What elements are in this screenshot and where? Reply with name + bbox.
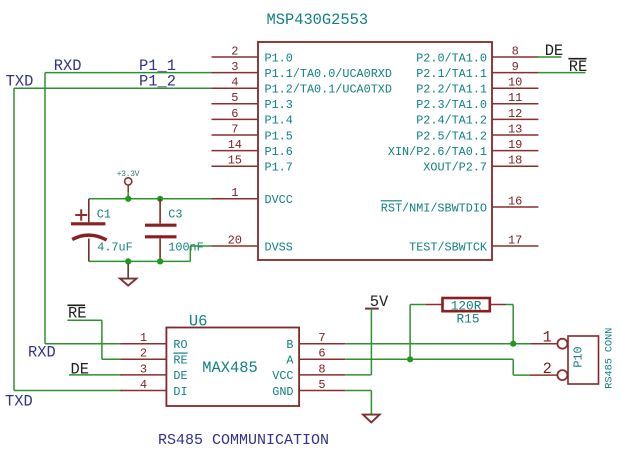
svg-text:DVCC: DVCC xyxy=(265,193,293,207)
svg-text:RE: RE xyxy=(569,58,587,76)
wire to U1 DVSS pin 20 xyxy=(190,245,211,247)
svg-text:1: 1 xyxy=(140,331,147,345)
U1 pin 13 stub (P2.5/TA1.2) xyxy=(492,134,538,136)
svg-text:15: 15 xyxy=(228,154,242,168)
wire RXD to U6 pin 1 RO xyxy=(45,343,122,345)
U6 pin 5 stub (GND) xyxy=(299,390,345,392)
svg-text:DI: DI xyxy=(173,385,187,399)
wire DE at U1 pin 8 xyxy=(537,56,562,58)
svg-text:MSP430G2553: MSP430G2553 xyxy=(267,11,369,29)
resistor R15 right lead wire xyxy=(506,304,513,306)
U1 pin 19 stub (XIN/P2.6/TA0.1) xyxy=(492,150,538,152)
svg-text:RXD: RXD xyxy=(28,344,56,362)
wire TXD horizontal to U1 pin 4 xyxy=(14,87,212,89)
U6 pin 1 stub (RO) xyxy=(121,343,167,345)
IC U6 MAX485 body xyxy=(166,328,299,407)
svg-text:R15: R15 xyxy=(457,311,480,326)
svg-text:4: 4 xyxy=(231,76,238,90)
wire TXD vertical trunk xyxy=(13,88,15,390)
U1 pin 11 stub (P2.3/TA1.0) xyxy=(492,103,538,105)
U1 pin 20 stub (DVSS) xyxy=(212,245,259,247)
svg-text:P1.1/TA0.0/UCA0RXD: P1.1/TA0.0/UCA0RXD xyxy=(265,67,392,81)
svg-text:10: 10 xyxy=(508,76,522,90)
U1 pin 1 stub (DVCC) xyxy=(212,198,259,200)
svg-text:C1: C1 xyxy=(97,208,111,222)
svg-text:MAX485: MAX485 xyxy=(202,359,257,377)
svg-text:17: 17 xyxy=(508,233,522,247)
U6 pin 4 stub (DI) xyxy=(121,390,167,392)
svg-text:9: 9 xyxy=(512,60,519,74)
svg-text:P1.3: P1.3 xyxy=(265,98,293,112)
capacitor C1 curved negative plate xyxy=(72,235,106,240)
connector P10 pin 1 circle xyxy=(557,339,567,349)
wire B net from U6 pin 7 to P10 pin 1 xyxy=(345,343,530,345)
junction A net / R15 left xyxy=(407,356,413,362)
capacitor C1 bottom lead xyxy=(88,239,90,262)
svg-text:P1.2/TA0.1/UCA0TXD: P1.2/TA0.1/UCA0TXD xyxy=(265,83,392,97)
svg-text:RE: RE xyxy=(173,354,187,368)
U1 pin 4 stub (P1.2/TA0.1/UCA0TXD) xyxy=(212,87,259,89)
svg-text:P10: P10 xyxy=(572,346,586,367)
svg-text:P2.3/TA1.0: P2.3/TA1.0 xyxy=(416,98,487,112)
svg-text:B: B xyxy=(286,338,293,352)
svg-text:DE: DE xyxy=(173,369,187,383)
wire RE at U1 pin 9 xyxy=(538,72,586,74)
capacitor C3 bottom lead xyxy=(159,238,161,261)
svg-text:VCC: VCC xyxy=(272,369,293,383)
IC U1 MSP430G2553 body xyxy=(258,42,492,260)
svg-text:P2.5/TA1.2: P2.5/TA1.2 xyxy=(416,129,487,143)
svg-text:P1.7: P1.7 xyxy=(265,161,293,175)
svg-text:6: 6 xyxy=(231,107,238,121)
U1 pin 8 stub (P2.0/TA1.0) xyxy=(492,56,538,58)
svg-text:TEST/SBWTCK: TEST/SBWTCK xyxy=(409,240,488,254)
junction +3.3V rail / supply stem xyxy=(125,196,131,202)
connector P10 pin 1 stub xyxy=(530,343,557,345)
U6 pin 6 stub (A) xyxy=(299,358,345,360)
svg-text:+3.3V: +3.3V xyxy=(117,170,140,179)
connector P10 pin 2 circle xyxy=(557,370,567,380)
supply +3.3V symbol circle xyxy=(125,178,132,185)
capacitor C3 plate 1 xyxy=(145,224,177,227)
U1 pin 18 stub (XOUT/P2.7) xyxy=(492,165,538,167)
svg-text:4: 4 xyxy=(140,378,147,392)
svg-text:3: 3 xyxy=(231,60,238,74)
resistor R15 right vertical to B net xyxy=(512,305,514,344)
U1 pin 3 stub (P1.1/TA0.0/UCA0RXD) xyxy=(212,72,259,74)
wire TXD to U6 pin 4 DI xyxy=(14,390,122,392)
U1 pin 12 stub (P2.4/TA1.2) xyxy=(492,118,538,120)
svg-text:19: 19 xyxy=(508,138,522,152)
wire RXD horizontal to U1 pin 3 xyxy=(45,72,212,74)
wire RE vertical down to U6 pin 2 xyxy=(101,320,103,359)
resistor R15 left lead wire xyxy=(410,304,426,306)
ground symbol stem (caps) xyxy=(127,264,129,278)
svg-text:RO: RO xyxy=(173,338,187,352)
connector P10 pin 2 stub xyxy=(530,374,557,376)
svg-text:P2.4/TA1.2: P2.4/TA1.2 xyxy=(416,114,487,128)
svg-text:2: 2 xyxy=(543,360,552,378)
capacitor C1 top lead xyxy=(88,199,90,223)
U6 pin 3 stub (DE) xyxy=(121,374,167,376)
svg-text:RS485 CONN: RS485 CONN xyxy=(605,328,616,389)
svg-text:3: 3 xyxy=(140,362,147,376)
ground symbol triangle (caps) xyxy=(120,279,136,286)
wire A net to P10 pin 2 xyxy=(513,374,530,376)
svg-text:RST/NMI/SBWTDIO: RST/NMI/SBWTDIO xyxy=(381,201,487,215)
svg-text:P2.0/TA1.0: P2.0/TA1.0 xyxy=(416,51,487,65)
svg-text:RS485 COMMUNICATION: RS485 COMMUNICATION xyxy=(158,432,329,449)
wire RXD vertical trunk xyxy=(44,73,46,344)
svg-text:6: 6 xyxy=(318,347,325,361)
svg-text:2: 2 xyxy=(231,44,238,58)
svg-text:C3: C3 xyxy=(168,208,182,222)
svg-text:P2.2/TA1.1: P2.2/TA1.1 xyxy=(416,83,487,97)
capacitor C3 top lead xyxy=(159,199,161,224)
svg-text:P1.6: P1.6 xyxy=(265,145,293,159)
svg-text:XOUT/P2.7: XOUT/P2.7 xyxy=(423,161,487,175)
capacitor C3 plate 2 xyxy=(145,235,177,238)
wire RE to U6 pin 2 xyxy=(102,358,122,360)
U6 pin 2 RE overline xyxy=(173,352,187,354)
svg-text:DVSS: DVSS xyxy=(265,240,293,254)
junction ground rail / gnd symbol xyxy=(125,258,131,264)
U1 pin 6 stub (P1.4) xyxy=(212,118,259,120)
wire A net from U6 pin 6 xyxy=(345,358,513,360)
wire DE to U6 pin 3 xyxy=(69,374,122,376)
svg-text:7: 7 xyxy=(318,331,325,345)
ground symbol triangle (U6) xyxy=(363,415,380,423)
resistor R15 left vertical to A net xyxy=(409,305,411,360)
svg-text:P1.5: P1.5 xyxy=(265,129,293,143)
U6 pin 2 stub (RE) xyxy=(121,358,167,360)
svg-text:4.7uF: 4.7uF xyxy=(97,240,132,254)
U1 pin 10 stub (P2.2/TA1.1) xyxy=(492,87,538,89)
svg-text:1: 1 xyxy=(543,329,552,347)
svg-text:U6: U6 xyxy=(189,312,207,330)
wire ground rail under C1 C3 xyxy=(89,260,191,262)
wire VCC from U6 pin 8 xyxy=(345,374,371,376)
junction B net / R15 right xyxy=(510,341,516,347)
resistor R15 left pin xyxy=(426,304,443,306)
svg-text:16: 16 xyxy=(508,194,522,208)
wire +3.3V rail to U1 DVCC pin 1 xyxy=(89,198,212,200)
wire GND from U6 pin 5 xyxy=(345,390,371,392)
svg-text:11: 11 xyxy=(508,91,522,105)
wire A net jog down xyxy=(512,359,514,375)
junction ground rail / C3 bottom xyxy=(157,258,163,264)
svg-text:20: 20 xyxy=(228,233,242,247)
supply +3.3V stem xyxy=(127,185,129,192)
svg-text:13: 13 xyxy=(508,122,522,136)
U1 pin 16 stub (RST/NMI/SBWTDIO) xyxy=(492,206,538,208)
wire 5V vertical to VCC row xyxy=(370,309,372,375)
svg-text:12: 12 xyxy=(508,107,522,121)
U1 pin 14 stub (P1.6) xyxy=(212,150,259,152)
svg-text:P2.1/TA1.1: P2.1/TA1.1 xyxy=(416,67,487,81)
resistor R15 right pin xyxy=(490,304,506,306)
wire up to DVSS vertical xyxy=(189,246,191,261)
svg-text:8: 8 xyxy=(512,44,519,58)
svg-text:TXD: TXD xyxy=(5,392,33,410)
resistor R15 body 120R xyxy=(443,298,490,311)
svg-text:8: 8 xyxy=(318,362,325,376)
wire RE horizontal under label xyxy=(67,319,102,321)
U1 pin 5 stub (P1.3) xyxy=(212,103,259,105)
svg-text:7: 7 xyxy=(231,122,238,136)
svg-text:P1.0: P1.0 xyxy=(265,51,293,65)
wire GND vertical to ground symbol xyxy=(370,391,372,415)
svg-text:1: 1 xyxy=(231,186,238,200)
connector P10 body xyxy=(568,336,599,384)
svg-text:2: 2 xyxy=(140,347,147,361)
U6 pin 7 stub (B) xyxy=(299,343,345,345)
capacitor C1 plus sign xyxy=(75,214,87,216)
U1 pin 9 stub (P2.1/TA1.1) xyxy=(492,72,538,74)
U6 pin 8 stub (VCC) xyxy=(299,374,345,376)
svg-text:14: 14 xyxy=(228,138,242,152)
svg-text:XIN/P2.6/TA0.1: XIN/P2.6/TA0.1 xyxy=(388,145,487,159)
svg-text:GND: GND xyxy=(272,385,293,399)
svg-text:18: 18 xyxy=(508,154,522,168)
svg-text:A: A xyxy=(286,354,294,368)
svg-text:5: 5 xyxy=(318,378,325,392)
svg-text:100nF: 100nF xyxy=(168,240,203,254)
U1 pin 15 stub (P1.7) xyxy=(212,165,259,167)
U1 pin 2 stub (P1.0) xyxy=(212,56,259,58)
capacitor C1 positive plate xyxy=(71,222,105,225)
U1 pin 7 stub (P1.5) xyxy=(212,134,259,136)
supply 5V bar symbol xyxy=(365,308,379,310)
U1 pin 17 stub (TEST/SBWTCK) xyxy=(492,245,538,247)
junction +3.3V rail / C3 top xyxy=(157,196,163,202)
svg-text:P1.4: P1.4 xyxy=(265,114,293,128)
svg-text:5: 5 xyxy=(231,91,238,105)
